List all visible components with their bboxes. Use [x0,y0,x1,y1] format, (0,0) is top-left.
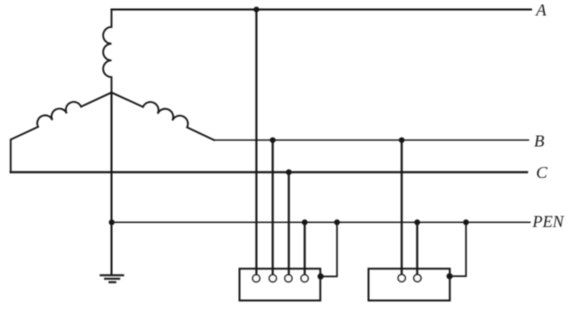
wire phase B bus [214,139,529,141]
wire tap C to load 1 [288,172,290,274]
svg-text:C: C [536,163,548,182]
junction dot PEN chassis load1 [334,219,340,225]
junction dot PEN tap load1 [302,219,308,225]
junction dot chassis terminal load2 [447,273,453,279]
junction dot PEN tap load2 [414,219,420,225]
wire PEN bus [112,221,530,223]
terminal L1 of load 1 [253,275,260,282]
load box 2 (single-phase load) [369,269,450,301]
wire tap B to load 1 [272,140,274,275]
junction dot PEN at star point conductor [109,219,115,225]
wire tap PEN to load 1 [304,222,306,274]
load box 1 (three-phase load) [240,269,321,301]
winding phase C (left diagonal) [11,93,112,173]
wire PEN to load 1 chassis [322,222,337,276]
wire tap A to load 1 [255,10,257,275]
junction dot B tap load1 [270,137,276,143]
junction dot PEN chassis load2 [463,219,469,225]
terminal L3 of load 1 [285,275,292,282]
junction dot C tap load1 [286,169,292,175]
winding phase B (right diagonal) [112,93,215,141]
junction dot B tap load2 [399,137,405,143]
terminal L2 of load 1 [269,275,276,282]
junction dot chassis terminal load1 [318,273,324,279]
terminal N of load 2 [414,275,421,282]
svg-text:A: A [535,1,547,20]
terminal L of load 2 [398,275,405,282]
wire tap B to load 2 [401,140,403,275]
ground (earth symbol) [101,274,123,276]
junction dot A tap [254,7,260,13]
wire phase A bus [112,9,532,11]
terminal N of load 1 [301,275,308,282]
svg-text:PEN: PEN [532,212,565,231]
wire phase C bus [11,171,527,173]
wire PEN to load 2 chassis [451,222,466,276]
winding phase A (top, vertical) [103,10,111,93]
wire neutral / earthing conductor (star point down) [111,93,113,275]
wire tap PEN to load 2 [416,222,418,274]
svg-text:B: B [534,132,545,151]
